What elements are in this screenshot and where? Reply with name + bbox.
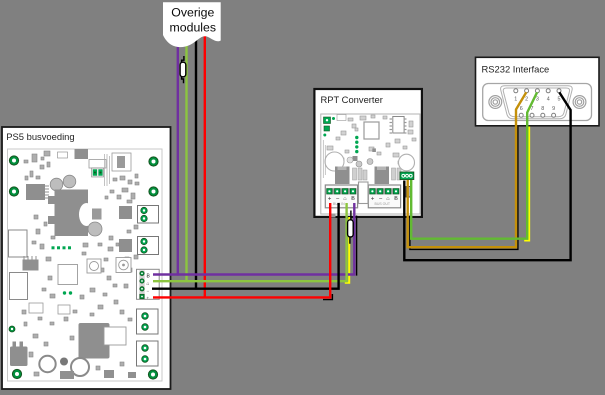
DB9 shell (501, 86, 573, 119)
wire yellow companion of green (RS232 side) (524, 127, 529, 241)
toroid circle 1 (39, 356, 55, 372)
wire black RPT to RS232 pin5 (404, 92, 570, 260)
DB9 pins row 2 (519, 113, 555, 117)
svg-text:⌂: ⌂ (343, 196, 346, 202)
terminal block T5 (137, 341, 159, 366)
pcb parts top area (24, 151, 68, 180)
svg-text:+: + (328, 195, 332, 202)
gray fuse part on olive wire (406, 187, 411, 198)
mid small parts (327, 139, 412, 164)
svg-text:9: 9 (552, 106, 555, 112)
capacitor circles (50, 178, 63, 191)
green led column (355, 136, 358, 154)
ic with legs (23, 256, 39, 271)
toroid circle 2 (71, 358, 89, 376)
relay big white (10, 273, 28, 300)
svg-text:⌂: ⌂ (147, 281, 150, 287)
DB9 connector (483, 84, 592, 121)
wire yellow companion of green (PS5 side) (345, 217, 349, 283)
toroid circle RPT (325, 152, 344, 171)
DB9 pins row 1 (514, 89, 561, 93)
small green hole (9, 326, 15, 332)
svg-text:3: 3 (536, 96, 539, 102)
dark small circle (60, 358, 68, 366)
RPT PCB image (321, 114, 420, 218)
gray square next to terminal 2 (119, 239, 132, 252)
svg-text:⌂: ⌂ (386, 196, 389, 202)
wire black shadow beside orange run (410, 127, 518, 250)
dark block top (75, 149, 89, 159)
wire green RPT to RS232 pin3 (411, 92, 537, 238)
terminal block T4 (137, 309, 159, 334)
svg-text:2: 2 (525, 96, 528, 102)
dark chip mid (353, 156, 358, 161)
wire black bus PS5 to RPT (152, 203, 339, 289)
svg-text:RPT Converter: RPT Converter (321, 94, 383, 105)
svg-text:4: 4 (547, 96, 550, 102)
svg-text:PS5 busvoeding: PS5 busvoeding (6, 131, 74, 142)
svg-text:5: 5 (558, 96, 561, 102)
wire purple bus PS5 to RPT (153, 203, 354, 275)
silk text left edge (323, 140, 325, 178)
svg-text:modules: modules (170, 21, 216, 35)
bottom small parts (22, 300, 132, 376)
cap circle mid (88, 222, 102, 236)
fuse F1 body (180, 62, 186, 77)
white block lower right (104, 327, 126, 345)
QFP ic outline (364, 122, 379, 139)
3pin green terminal right (399, 154, 415, 179)
green led row (52, 246, 72, 249)
svg-text:6: 6 (520, 106, 523, 112)
svg-text:Ƀ: Ƀ (351, 196, 355, 202)
DB9 left screw (489, 96, 502, 109)
cap circles (347, 157, 353, 163)
fuse F2 on green/yellow wire : lead (350, 211, 351, 244)
DB9 pin numbers 1-5 (514, 96, 560, 102)
scattered small parts mid (32, 215, 132, 299)
small parts top (336, 115, 387, 141)
white rects lower mid (29, 303, 70, 314)
mosfet right (375, 167, 390, 185)
DB9 pin numbers 6-9 (520, 106, 555, 112)
PS5 PCB image (8, 149, 163, 381)
terminal block T1 (138, 206, 159, 224)
bottom ics (60, 370, 136, 379)
mounting hole bottom-right (148, 370, 157, 379)
terminal block right (bus out) (368, 185, 400, 208)
terminal block T2 (138, 237, 159, 255)
PS5 busvoeding box (2, 127, 171, 389)
transformer (48, 190, 94, 237)
RPT Converter box (314, 89, 422, 217)
wire black shadow beside purple riser (356, 216, 358, 276)
gray block mid (92, 209, 102, 220)
wire red bus PS5 to RPT (153, 203, 330, 297)
svg-text:BUS OUT: BUS OUT (375, 202, 391, 206)
mounting hole right 2 (149, 187, 158, 196)
terminal block T3 4pin (137, 269, 160, 300)
green connector top-left (323, 117, 335, 137)
callout: Overige modules (163, 2, 221, 47)
component with pins top right (112, 153, 131, 171)
gray square next to terminal 1 (119, 206, 132, 219)
svg-text:RS232 Interface: RS232 Interface (482, 64, 550, 75)
svg-text:8: 8 (541, 106, 544, 112)
wire black from Overige modules (195, 40, 197, 290)
svg-text:+: + (147, 296, 150, 301)
wire green from Overige modules (185, 43, 187, 282)
wire red from Overige modules (204, 34, 206, 298)
white connector (89, 160, 106, 169)
fuse F1 on Overige bundle : lead (182, 56, 184, 83)
svg-text:Ƀ: Ƀ (394, 196, 398, 202)
mounting hole top-right 1 (149, 157, 158, 166)
parts right of dip (408, 121, 416, 141)
wire orange RPT to RS232 pin2 (408, 92, 527, 247)
parts mid right (105, 174, 139, 260)
square with circle (87, 259, 101, 273)
wire black shadow at red corner (323, 294, 332, 300)
svg-text:−: − (379, 195, 383, 202)
DB9 right screw (573, 96, 586, 109)
relay white between terminals (359, 182, 369, 204)
svg-text:+: + (371, 195, 375, 202)
big gray block bottom (79, 323, 110, 359)
square with circle 2 (116, 258, 131, 273)
mosfet left (335, 167, 350, 185)
RS232 Interface box (476, 57, 600, 126)
svg-text:−: − (336, 195, 340, 202)
mounting hole top-left 1 (9, 156, 18, 165)
svg-text:Overige: Overige (171, 5, 214, 19)
terminal block left (bus in) (325, 185, 357, 208)
electrolytic cap bottom left (10, 342, 28, 367)
ic left (26, 184, 49, 200)
mounting hole left 2 (9, 187, 18, 196)
white square mid (58, 265, 78, 285)
relay white box left (9, 230, 28, 257)
vertical silk text (105, 154, 110, 186)
green dots pair (63, 291, 72, 294)
wire purple from Overige modules (177, 44, 179, 276)
wire green bus PS5 to RPT (153, 203, 347, 281)
svg-text:1: 1 (514, 96, 517, 102)
fuse F2 body (348, 220, 354, 237)
mounting hole bottom-left (12, 369, 21, 378)
green 2pin header (92, 168, 104, 177)
striped caps between mosfets (353, 168, 402, 180)
DIP ic right (390, 117, 407, 134)
svg-text:−: − (147, 289, 150, 294)
